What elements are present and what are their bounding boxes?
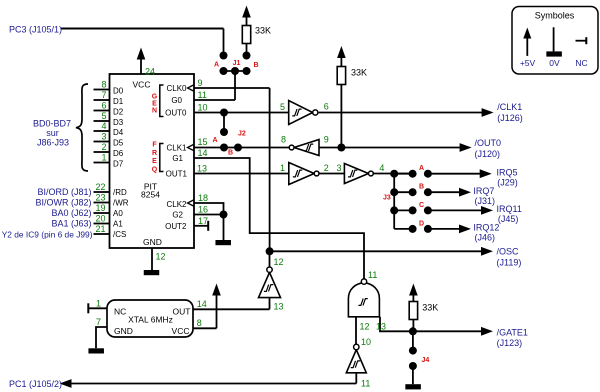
- svg-text:22: 22: [95, 182, 105, 192]
- svg-text:A1: A1: [113, 220, 123, 229]
- svg-text:12: 12: [274, 257, 284, 267]
- svg-text:IRQ5: IRQ5: [497, 168, 518, 178]
- svg-text:14: 14: [198, 148, 208, 158]
- svg-text:(J31): (J31): [475, 196, 496, 206]
- svg-text:D1: D1: [113, 97, 124, 106]
- svg-text:PC3 (J105/1): PC3 (J105/1): [9, 25, 62, 35]
- svg-text:20: 20: [95, 214, 105, 224]
- svg-text:A: A: [212, 137, 217, 144]
- svg-text:24: 24: [145, 67, 155, 77]
- svg-text:D7: D7: [113, 160, 124, 169]
- svg-text:8: 8: [101, 80, 106, 90]
- svg-text:9: 9: [324, 135, 329, 145]
- svg-text:18: 18: [198, 193, 208, 203]
- svg-text:BA1 (J63): BA1 (J63): [51, 219, 91, 229]
- svg-text:11: 11: [368, 270, 377, 280]
- svg-text:J2: J2: [238, 131, 246, 138]
- svg-text:J86-J93: J86-J93: [37, 137, 69, 147]
- svg-text:/CLK1: /CLK1: [497, 102, 522, 112]
- svg-text:D4: D4: [113, 128, 124, 137]
- svg-text:Q: Q: [152, 166, 158, 173]
- svg-text:5: 5: [280, 102, 285, 112]
- svg-text:G0: G0: [171, 96, 182, 105]
- svg-text:4: 4: [101, 121, 106, 131]
- svg-text:IRQ12: IRQ12: [473, 223, 499, 233]
- svg-text:8: 8: [197, 318, 202, 328]
- svg-text:1: 1: [101, 153, 106, 163]
- svg-text:J4: J4: [422, 357, 430, 364]
- svg-text:J1: J1: [233, 60, 241, 67]
- svg-text:/GATE1: /GATE1: [497, 327, 528, 337]
- svg-text:Symboles: Symboles: [535, 11, 575, 21]
- svg-text:/CS: /CS: [113, 230, 126, 239]
- svg-text:7: 7: [96, 317, 101, 327]
- svg-text:19: 19: [95, 203, 105, 213]
- svg-text:J3: J3: [383, 195, 391, 202]
- svg-text:12: 12: [359, 322, 369, 332]
- svg-text:A: A: [214, 62, 219, 69]
- svg-text:VCC: VCC: [133, 80, 151, 90]
- svg-text:D3: D3: [113, 118, 124, 127]
- svg-text:10: 10: [361, 337, 371, 347]
- svg-text:(J29): (J29): [497, 178, 518, 188]
- svg-text:NC: NC: [575, 58, 587, 68]
- svg-text:Y2 de IC9 (pin 6 de J99): Y2 de IC9 (pin 6 de J99): [2, 230, 93, 240]
- svg-text:B: B: [228, 150, 233, 157]
- svg-text:OUT1: OUT1: [166, 170, 188, 179]
- svg-text:E: E: [152, 158, 157, 165]
- svg-text:D2: D2: [113, 108, 124, 117]
- svg-text:F: F: [152, 142, 157, 149]
- svg-text:D6: D6: [113, 149, 124, 158]
- svg-text:3: 3: [101, 132, 106, 142]
- svg-text:G2: G2: [172, 211, 183, 220]
- svg-text:23: 23: [95, 193, 105, 203]
- svg-text:13: 13: [376, 322, 386, 332]
- svg-text:sur: sur: [46, 128, 59, 138]
- svg-text:2: 2: [324, 163, 329, 173]
- svg-text:2: 2: [101, 142, 106, 152]
- svg-text:D: D: [419, 220, 424, 227]
- svg-text:XTAL 6MHz: XTAL 6MHz: [128, 314, 173, 324]
- svg-text:33K: 33K: [351, 68, 367, 78]
- svg-text:PC1 (J105/2): PC1 (J105/2): [9, 379, 62, 389]
- svg-text:(J119): (J119): [497, 258, 522, 268]
- svg-text:IRQ11: IRQ11: [497, 204, 522, 214]
- svg-text:11: 11: [361, 379, 370, 389]
- svg-text:(J126): (J126): [497, 113, 523, 123]
- svg-text:CLK2: CLK2: [166, 200, 187, 209]
- svg-text:12: 12: [156, 252, 166, 262]
- svg-text:(J45): (J45): [498, 214, 519, 224]
- svg-text:/RD: /RD: [113, 188, 127, 197]
- svg-text:0V: 0V: [549, 58, 560, 68]
- svg-text:14: 14: [197, 299, 207, 309]
- svg-text:/OUT0: /OUT0: [475, 138, 502, 148]
- svg-text:16: 16: [198, 205, 208, 215]
- svg-text:(J123): (J123): [497, 338, 523, 348]
- svg-text:6: 6: [324, 102, 329, 112]
- svg-text:33K: 33K: [422, 303, 438, 313]
- svg-text:G1: G1: [172, 154, 183, 163]
- svg-text:C: C: [419, 202, 424, 209]
- svg-text:9: 9: [198, 78, 203, 88]
- svg-text:1: 1: [96, 298, 101, 308]
- svg-text:BA0 (J62): BA0 (J62): [51, 208, 91, 218]
- svg-text:13: 13: [197, 163, 207, 173]
- svg-text:1: 1: [280, 163, 285, 173]
- svg-text:/OSC: /OSC: [497, 247, 520, 257]
- svg-text:6: 6: [101, 101, 106, 111]
- svg-text:BI/ORD (J81): BI/ORD (J81): [37, 187, 91, 197]
- svg-text:21: 21: [95, 224, 105, 234]
- svg-text:CLK1: CLK1: [166, 144, 187, 153]
- svg-text:BI/OWR (J82): BI/OWR (J82): [35, 198, 91, 208]
- svg-text:N: N: [152, 108, 157, 115]
- svg-text:(J46): (J46): [475, 233, 496, 243]
- svg-text:OUT2: OUT2: [165, 222, 187, 231]
- svg-text:10: 10: [198, 103, 208, 113]
- svg-text:D0: D0: [113, 87, 124, 96]
- svg-text:R: R: [152, 150, 157, 157]
- svg-text:7: 7: [101, 90, 106, 100]
- svg-text:13: 13: [274, 302, 284, 312]
- svg-text:17: 17: [198, 216, 208, 226]
- svg-text:(J120): (J120): [475, 149, 501, 159]
- svg-text:A0: A0: [113, 209, 123, 218]
- svg-text:4: 4: [379, 163, 384, 173]
- svg-text:VCC: VCC: [172, 326, 190, 336]
- svg-text:8254: 8254: [141, 190, 160, 200]
- svg-text:/WR: /WR: [113, 199, 129, 208]
- svg-text:3: 3: [336, 163, 341, 173]
- svg-text:OUT0: OUT0: [165, 109, 187, 118]
- svg-text:IRQ7: IRQ7: [473, 186, 494, 196]
- svg-text:33K: 33K: [255, 26, 271, 36]
- svg-text:15: 15: [198, 137, 208, 147]
- svg-text:11: 11: [198, 90, 207, 100]
- svg-text:E: E: [152, 101, 157, 108]
- svg-text:GND: GND: [143, 237, 162, 247]
- svg-text:B: B: [419, 184, 424, 191]
- svg-text:NC: NC: [114, 307, 126, 317]
- svg-text:8: 8: [281, 135, 286, 145]
- svg-text:D5: D5: [113, 139, 124, 148]
- svg-text:+5V: +5V: [520, 58, 536, 68]
- svg-text:CLK0: CLK0: [166, 84, 187, 93]
- svg-text:OUT: OUT: [173, 307, 191, 317]
- svg-text:5: 5: [101, 111, 106, 121]
- svg-text:A: A: [419, 165, 424, 172]
- svg-text:B: B: [253, 62, 258, 69]
- svg-text:GND: GND: [114, 326, 133, 336]
- svg-text:G: G: [152, 94, 158, 101]
